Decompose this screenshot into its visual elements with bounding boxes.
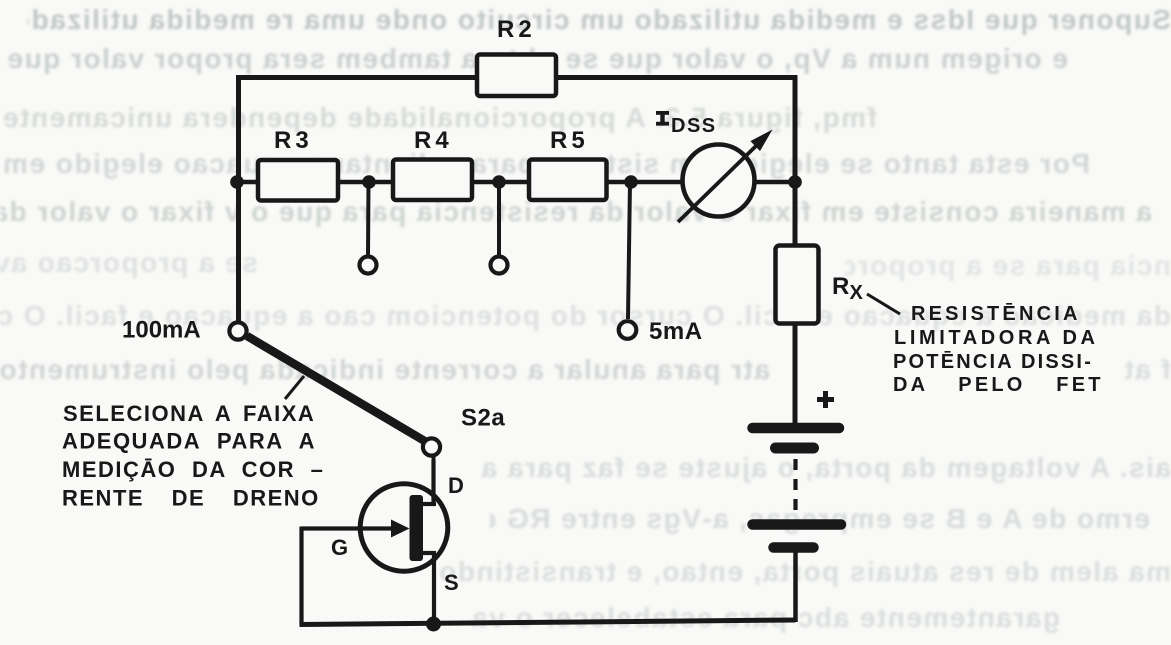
wire: tap down from R5 junction to 5mA terminal [628, 182, 630, 319]
terminal 100mA [229, 322, 246, 339]
resistor R5 [529, 160, 607, 201]
svg-text:100mA: 100mA [122, 317, 201, 344]
junction node at right bus end [788, 175, 802, 189]
resistor R2 [477, 55, 556, 97]
pin label G [331, 535, 348, 560]
label RX [832, 273, 864, 304]
svg-text:R: R [832, 273, 849, 300]
wire: source down to bottom rail [432, 553, 436, 625]
svg-text:D: D [448, 473, 464, 498]
svg-text:R4: R4 [414, 127, 453, 154]
terminal circle below R3-R4 junction [360, 257, 377, 274]
svg-text:DA PELO FET: DA PELO FET [893, 374, 1104, 396]
meter IDSS (ammeter with adjustment arrow) [678, 130, 773, 223]
leader line from RX label to annotation [867, 294, 900, 314]
ghost bleed-through layer (decorative) [28, 4, 1171, 40]
wire: battery bottom to rail [793, 551, 798, 622]
transistor Q1 (JFET) [302, 460, 448, 571]
svg-text:G: G [331, 535, 348, 560]
label R5 [550, 127, 589, 154]
svg-text:R2: R2 [497, 16, 536, 43]
terminal circle below R4-R5 junction [491, 257, 508, 274]
leader line from annotation to switch lever [285, 376, 304, 399]
svg-text:MEDIÇĀO DA COR –: MEDIÇĀO DA COR – [62, 457, 324, 482]
wire: right vertical from top corner down to battery [793, 75, 798, 424]
annotation: resistencia limitadora da potencia dissipada pelo FET [893, 303, 1104, 396]
svg-text:RENTE DE DRENO: RENTE DE DRENO [62, 486, 320, 511]
label 100mA [122, 317, 201, 344]
label R2 [497, 16, 536, 43]
wire: gate loop left vertical [299, 527, 303, 626]
svg-text:RESISTĒNCIA: RESISTĒNCIA [911, 303, 1081, 325]
label R3 [274, 127, 313, 154]
wire: middle horizontal bus through R3 R4 R5 and meter [239, 180, 794, 185]
label S2a [461, 405, 505, 432]
junction node at source on bottom rail [426, 617, 441, 632]
svg-text:POTĒNCIA DISSI-: POTĒNCIA DISSI- [893, 351, 1093, 373]
label 5mA [649, 318, 703, 345]
resistor RX [776, 246, 819, 324]
svg-text:R5: R5 [550, 127, 589, 154]
wire: tap down from R3-R4 junction [366, 182, 371, 255]
battery B1 [753, 428, 842, 548]
junction node between R3 and R4 [362, 175, 376, 189]
svg-text:S: S [444, 570, 459, 595]
resistor R3 [258, 160, 338, 201]
svg-text:X: X [850, 282, 864, 304]
battery polarity label + [817, 391, 834, 408]
label IDSS [656, 111, 717, 137]
label R4 [414, 127, 453, 154]
svg-text:DSS: DSS [671, 115, 717, 137]
svg-text:SELECIONA A FAIXA: SELECIONA A FAIXA [63, 401, 315, 426]
svg-text:5mA: 5mA [649, 318, 703, 345]
junction node at left bus end [230, 175, 244, 189]
switch S2a lever [247, 336, 428, 443]
wire: tap down from R4-R5 junction [497, 182, 501, 255]
switch S2a contact circle [423, 438, 440, 455]
svg-text:ADEQUADA PARA A: ADEQUADA PARA A [62, 429, 316, 454]
wire: left vertical from top corner down to 100mA terminal [236, 75, 241, 321]
wire: S2a contact down to drain [432, 456, 436, 505]
junction node after R5 [624, 175, 638, 189]
svg-text:S2a: S2a [461, 405, 505, 432]
pin label D [448, 473, 464, 498]
resistor R4 [393, 160, 472, 201]
wire: top horizontal from left corner to right corner [236, 75, 795, 80]
svg-text:R3: R3 [274, 127, 313, 154]
svg-text:LIMITADORA DA: LIMITADORA DA [894, 327, 1099, 349]
annotation: seleciona a faixa adequada para a medicao da corrente de dreno [62, 401, 324, 511]
wire: bottom horizontal rail [300, 620, 796, 625]
junction node between R4 and R5 [492, 175, 506, 189]
terminal 5mA [619, 321, 637, 339]
pin label S [444, 570, 459, 595]
